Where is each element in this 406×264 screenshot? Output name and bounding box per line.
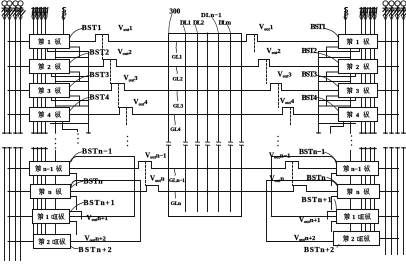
wire left clock bus 4 (lower) — [44, 148, 48, 235]
svg-text:BSTn+2: BSTn+2 — [79, 245, 112, 254]
svg-text:Voutn+1: Voutn+1 — [87, 214, 108, 222]
wire Voutn+2 feedback (right) — [267, 181, 380, 242]
BSTn leader (right) — [327, 177, 338, 185]
svg-text:Vout3: Vout3 — [124, 74, 138, 82]
stub right bus to box 4 — [378, 114, 399, 116]
wire branch y81.5 (left) — [56, 81, 89, 83]
dashed timing line (left bottom) — [145, 162, 147, 186]
data line DL3 — [207, 34, 209, 212]
arrowhead (right bus 4) — [402, 17, 405, 20]
arrowhead (right inner 4) — [373, 17, 376, 20]
stage 4 (left) — [30, 108, 70, 122]
svg-text:BST4: BST4 — [90, 92, 110, 101]
terminal label (left 4) — [18, 7, 25, 16]
arrowhead (right inner 1) — [360, 17, 363, 20]
wire elbow box3 out (left) — [70, 96, 80, 106]
svg-text:3: 3 — [356, 88, 359, 95]
terminal label (left 3) — [13, 7, 20, 16]
wire right bus 1 (upper) — [384, 6, 388, 134]
wire right bus 4 (lower) — [402, 147, 406, 254]
dashed timing line (right 4) — [290, 108, 292, 127]
stage n (left) — [31, 185, 71, 199]
wire right clock bus 3 (upper) — [369, 8, 373, 134]
svg-text:Voutn: Voutn — [150, 175, 165, 183]
arrowhead (left inner 1) — [32, 17, 35, 20]
svg-text:BSTn−1: BSTn−1 — [299, 147, 325, 156]
continuation dots (right waveform) — [277, 136, 279, 147]
wire box1 bottom tap (right) — [319, 49, 360, 52]
svg-text:BSTn: BSTn — [307, 173, 327, 182]
wire branch y57.5 (right) — [319, 57, 351, 59]
data line DL5 — [230, 34, 232, 212]
wire left bus 4 (lower) — [19, 147, 23, 260]
continuation dots (left waveform) — [127, 136, 129, 147]
svg-text:2: 2 — [47, 239, 50, 246]
junction dot — [207, 90, 209, 92]
arrowhead SP (left) — [62, 17, 65, 20]
svg-text:GLn: GLn — [171, 201, 181, 207]
wire gate line GLn-1 with Vout pulses — [70, 162, 337, 169]
svg-text:2: 2 — [47, 64, 50, 71]
junction dot — [207, 41, 209, 43]
wire elbow box2 out (right) — [327, 72, 339, 82]
dashed timing line (left 1) — [102, 35, 104, 60]
svg-text:Voutn+2: Voutn+2 — [85, 234, 106, 242]
terminal T1 (left) — [2, 1, 7, 6]
wire branch y106 (left) — [56, 105, 89, 107]
arrowhead (left bus 2) — [8, 17, 11, 20]
wire branch y123.5 (right) — [319, 123, 356, 125]
BST2 leader (left) — [70, 53, 90, 63]
BST1 leader (right) — [325, 29, 339, 38]
svg-text:1: 1 — [47, 39, 50, 46]
wire box2 bottom tap (right) — [319, 74, 356, 77]
BSTn-1 leader (left) — [72, 152, 83, 162]
wire left bus 2 (lower) — [8, 147, 12, 260]
junction dot — [207, 114, 209, 116]
wire gate line GL4 with Vout pulses — [70, 108, 339, 115]
arrowhead (left bus 4) — [19, 17, 22, 20]
stage 2 (left) — [30, 60, 70, 74]
wire carry box1-box2 (left) — [55, 49, 57, 60]
svg-text:n−1: n−1 — [43, 167, 53, 173]
signal label (right inner 1) — [360, 8, 364, 17]
wire box1 bottom tap (left) — [48, 49, 89, 52]
SP label (left) — [62, 8, 66, 18]
svg-text:BST2: BST2 — [90, 48, 110, 57]
terminal T2 (right) — [389, 1, 394, 6]
wire SP to stage1 (right) — [345, 8, 347, 35]
stub right bus to box 7 — [379, 216, 399, 218]
arrowhead (right bus 1) — [384, 17, 387, 20]
wire elbow box2 out (left) — [70, 72, 80, 82]
dummy stage 1 (left) — [33, 210, 70, 224]
leader DLn-1 — [212, 18, 219, 34]
signal label (right inner 4) — [373, 8, 377, 17]
arrowhead (left inner 4) — [44, 17, 47, 20]
leader DL2 — [195, 25, 197, 33]
break mark — [166, 142, 170, 146]
wire gate line GL2 with Vout pulses — [70, 60, 339, 67]
wire dummy1 inner bracket (right) — [328, 212, 337, 220]
wire BST vertical (right) — [317, 52, 321, 134]
BSTn+2 leader (right) — [337, 244, 339, 247]
signal label (left inner 2) — [36, 8, 40, 17]
wire elbow n out (right) — [332, 197, 338, 210]
wire left bus 3 (upper) — [14, 6, 18, 134]
terminal T4 (right) — [401, 1, 406, 6]
wire elbow dummy1 out (right) — [332, 222, 337, 232]
stage n-1 (right) — [337, 162, 379, 176]
dashed timing line (left 2) — [110, 60, 112, 84]
wire carry box4 down (right) — [350, 122, 352, 134]
leader 300 — [169, 14, 172, 33]
wire carry box3-box4 (left) — [55, 98, 57, 108]
signal label (left inner 3) — [40, 8, 44, 17]
wire right clock bus 1 (lower) — [360, 148, 364, 232]
wire box2 bottom tap (left) — [52, 74, 89, 77]
svg-text:BSTn+1: BSTn+1 — [302, 195, 332, 204]
terminal T1 (right) — [383, 1, 388, 6]
BST3 leader (right) — [317, 75, 339, 87]
wire branch y123.5 (left) — [51, 123, 89, 125]
stage 3 (right) — [339, 84, 378, 98]
wire right clock bus 4 (upper) — [373, 8, 377, 134]
wire right bus 1 (lower) — [384, 147, 388, 254]
stub left bus to box 2 — [8, 66, 30, 68]
svg-text:BST3: BST3 — [90, 70, 110, 79]
svg-text:n−1: n−1 — [351, 167, 361, 173]
wire carry into stage n-1 (left) — [55, 151, 57, 162]
arrowhead (right bus 3) — [396, 17, 399, 20]
wire carry n-1 to n (left) — [55, 176, 57, 185]
wire left bus 1 (lower) — [3, 147, 7, 260]
wire box4 to dots (left) — [63, 122, 78, 132]
leader GL2 — [175, 67, 178, 74]
wire left bus 4 (upper) — [19, 6, 23, 134]
svg-text:BST4: BST4 — [302, 93, 318, 102]
wire SP to stage1 (left) — [63, 8, 65, 35]
dashed timing line (left 3) — [118, 84, 120, 108]
stub left bus to box 8 — [8, 241, 34, 243]
svg-text:BST3: BST3 — [302, 69, 318, 78]
terminal T2 (left) — [7, 1, 12, 6]
break mark — [239, 142, 243, 146]
wire right bus 3 (lower) — [396, 147, 400, 254]
break mark — [228, 142, 232, 146]
arrowhead (right inner 3) — [369, 17, 372, 20]
wire branch y106 (right) — [319, 105, 351, 107]
terminal label (left 1) — [2, 7, 9, 16]
wire right clock bus 2 (lower) — [364, 148, 368, 232]
svg-text:GLn−1: GLn−1 — [169, 178, 185, 184]
wire carry box1-box2 (right) — [350, 49, 352, 60]
svg-text:GL4: GL4 — [170, 127, 180, 133]
svg-text:Voutn+2: Voutn+2 — [294, 234, 315, 242]
dummy stage 2 (right) — [334, 232, 380, 246]
terminal label (right 3) — [395, 7, 402, 16]
svg-text:Vout4: Vout4 — [280, 97, 295, 105]
data line DL4 — [218, 34, 220, 212]
BSTn+1 leader (right) — [335, 200, 337, 210]
stub left bus to box 5 — [8, 168, 30, 170]
svg-text:Vout2: Vout2 — [118, 48, 132, 56]
wire gate line GL3 with Vout pulses — [70, 84, 339, 91]
BSTn-1 leader (right) — [323, 152, 336, 162]
BST2 leader (right) — [317, 53, 339, 63]
arrowhead (left inner 3) — [40, 17, 43, 20]
leader GL4 — [173, 115, 176, 125]
dashed timing line (right 1) — [254, 35, 256, 54]
terminal T4 (left) — [18, 1, 23, 6]
wire carry n to dummy1 (left) — [55, 199, 57, 210]
SP label (right) — [344, 8, 348, 18]
wire BST vertical (left) — [87, 52, 91, 134]
svg-text:1: 1 — [46, 214, 49, 221]
svg-text:Voutn−1: Voutn−1 — [269, 151, 290, 159]
svg-text:Voutn+1: Voutn+1 — [299, 216, 320, 224]
continuation dots (left bst) — [77, 133, 79, 144]
svg-text:BSTn+2: BSTn+2 — [304, 245, 334, 254]
wire elbow box1 out (right) — [327, 47, 339, 58]
wire box4 elbow down (right) — [331, 122, 344, 134]
terminal label (right 4) — [401, 7, 406, 16]
svg-text:2: 2 — [356, 64, 359, 71]
stage n (right) — [338, 185, 380, 199]
BSTn+1 leader (left) — [70, 203, 84, 213]
terminal label (right 1) — [383, 7, 390, 16]
stub right bus to box 2 — [378, 66, 399, 68]
wire elbow n-1 out (right) — [332, 174, 337, 186]
arrowhead (left bus 1) — [3, 17, 6, 20]
signal label (right inner 3) — [369, 8, 373, 17]
stage 1 (left) — [30, 35, 70, 49]
wire left clock bus 3 (lower) — [40, 148, 44, 235]
junction dot — [207, 33, 209, 35]
svg-text:BSTn+1: BSTn+1 — [84, 198, 115, 207]
svg-text:Vout2: Vout2 — [267, 47, 281, 55]
wire carry n to dummy1 (right) — [350, 199, 352, 210]
BST1 leader (left) — [70, 29, 82, 38]
wire carry box3-box4 (right) — [350, 98, 352, 108]
junction dot — [207, 66, 209, 68]
svg-text:DL1: DL1 — [180, 19, 191, 26]
wire carry dummy1-dummy2 (right) — [350, 224, 352, 232]
svg-text:Vout1: Vout1 — [259, 23, 273, 31]
wire left clock bus 2 (lower) — [36, 148, 40, 235]
svg-text:300: 300 — [169, 8, 180, 16]
svg-text:2: 2 — [351, 236, 354, 243]
terminal label (right 2) — [389, 7, 396, 16]
stub right bus to box 5 — [379, 168, 399, 170]
wire elbow box1 out (left) — [70, 47, 80, 58]
terminal T3 (left) — [13, 1, 18, 6]
break mark — [183, 142, 187, 146]
dummy stage 1 (right) — [337, 210, 379, 224]
wire carry n-1 to n (right) — [350, 176, 352, 185]
arrowhead (right inner 2) — [364, 17, 367, 20]
junction dot — [207, 168, 209, 170]
svg-text:1: 1 — [356, 39, 359, 46]
wire Voutn+1 feedback (left) — [70, 157, 135, 217]
wire left clock bus 4 (upper) — [44, 8, 48, 134]
terminal T3 (right) — [395, 1, 400, 6]
stage 1 (right) — [339, 35, 378, 49]
stub right bus to box 3 — [378, 90, 399, 92]
wire gate line GL1 with Vout pulses — [70, 35, 339, 42]
continuation dots (left carry) — [55, 138, 57, 149]
break mark — [216, 142, 220, 146]
stub right bus to box 6 — [380, 191, 399, 193]
wire right clock bus 1 (upper) — [360, 8, 364, 134]
wire left clock bus 3 (upper) — [40, 8, 44, 134]
wire carry dummy1-dummy2 (left) — [55, 224, 57, 235]
dashed timing line (right 2) — [266, 60, 268, 84]
wire gate line GLn with Vout pulses — [71, 186, 338, 192]
dashed timing line (right 3) — [278, 84, 280, 108]
wire left clock bus 1 (lower) — [32, 148, 36, 235]
wire box3 bottom tap (left) — [52, 98, 89, 101]
wire Voutn+2 feedback (left) — [71, 181, 141, 242]
data line DL1 — [185, 34, 187, 212]
wire left bus 3 (lower) — [14, 147, 18, 260]
wire branch y57.5 (left) — [56, 57, 89, 59]
svg-text:GL1: GL1 — [172, 54, 182, 60]
svg-text:Vout4: Vout4 — [133, 98, 148, 106]
signal label (left inner 4) — [44, 8, 48, 17]
wire left bus 2 (upper) — [8, 6, 12, 134]
svg-text:1: 1 — [352, 214, 355, 221]
svg-text:DLm: DLm — [219, 19, 232, 26]
leader DL1 — [183, 25, 185, 33]
wire right clock bus 3 (lower) — [369, 148, 373, 232]
leader GLn — [174, 192, 177, 198]
svg-text:BSTn: BSTn — [84, 176, 104, 185]
wire Voutn+1 feedback (right) — [272, 157, 379, 217]
terminal label (left 2) — [7, 7, 14, 16]
wire left clock bus 1 (upper) — [32, 8, 36, 134]
wire branch y81.5 (right) — [319, 81, 351, 83]
stage 2 (right) — [339, 60, 378, 74]
stub left bus to box 1 — [8, 41, 30, 43]
svg-text:BST2: BST2 — [302, 46, 318, 55]
arrowhead SP (right) — [344, 17, 347, 20]
svg-text:Vout3: Vout3 — [278, 71, 292, 79]
BST4 leader (right) — [317, 97, 339, 111]
wire elbow box3 out (right) — [327, 96, 339, 106]
stub right bus to box 8 — [380, 238, 399, 240]
leader DLm — [228, 25, 231, 33]
leader GLn&#8722;1 — [173, 169, 176, 175]
wire carry box2-box3 (right) — [350, 74, 352, 84]
leader GL3 — [176, 91, 179, 101]
wire right bus 2 (lower) — [390, 147, 394, 254]
junction dot — [207, 191, 209, 193]
wire elbow dummy1 out (left) — [70, 222, 77, 235]
svg-text:DLn−1: DLn−1 — [201, 12, 222, 19]
BSTn+2 leader (left) — [71, 246, 79, 249]
stub left bus to box 3 — [8, 90, 30, 92]
svg-text:Voutn: Voutn — [270, 175, 285, 183]
BSTn leader (left) — [71, 181, 84, 188]
continuation dots (right carry) — [351, 135, 353, 146]
break mark — [195, 142, 199, 146]
svg-text:BST1: BST1 — [82, 23, 102, 32]
panel break gap — [164, 142, 246, 146]
svg-text:3: 3 — [47, 88, 50, 95]
wire right clock bus 4 (lower) — [373, 148, 377, 232]
signal label (left inner 1) — [32, 8, 36, 17]
wire left clock bus 2 (upper) — [36, 8, 40, 134]
svg-text:BST1: BST1 — [310, 22, 326, 31]
svg-text:Vout1: Vout1 — [118, 24, 132, 32]
arrowhead (left bus 3) — [14, 17, 17, 20]
display panel 300 — [169, 34, 242, 217]
arrowhead (left inner 2) — [36, 17, 39, 20]
stub left bus to box 7 — [8, 216, 33, 218]
stage 4 (right) — [339, 108, 378, 122]
dashed timing line (right bottom) — [292, 162, 294, 186]
svg-text:DL2: DL2 — [193, 19, 205, 26]
wire right clock bus 2 (upper) — [364, 8, 368, 134]
wire carry box2-box3 (left) — [55, 74, 57, 84]
wire dummy1 inner bracket (left) — [70, 212, 82, 220]
svg-text:GL3: GL3 — [173, 103, 183, 109]
wire carry box4 down (left) — [55, 122, 57, 134]
stub right bus to box 1 — [378, 41, 399, 43]
signal label (right inner 2) — [364, 8, 368, 17]
stub left bus to box 4 — [8, 114, 30, 116]
wire right bus 2 (upper) — [390, 6, 394, 134]
BST4 leader (left) — [70, 97, 90, 111]
wire right bus 3 (upper) — [396, 6, 400, 134]
wire left bus 1 (upper) — [3, 6, 7, 134]
stage n-1 (left) — [30, 162, 70, 176]
wire box3 bottom tap (right) — [319, 98, 356, 101]
dashed timing line (left 4) — [126, 108, 128, 127]
svg-text:GL2: GL2 — [173, 76, 183, 82]
arrowhead (right bus 2) — [390, 17, 393, 20]
break mark — [205, 142, 209, 146]
wire right bus 4 (upper) — [402, 6, 406, 134]
stage 3 (left) — [30, 84, 70, 98]
leader GL1 — [175, 42, 178, 53]
BST3 leader (left) — [70, 75, 90, 87]
svg-text:Voutn−1: Voutn−1 — [145, 151, 166, 159]
data line DL2 — [197, 34, 199, 212]
svg-text:BSTn−1: BSTn−1 — [82, 146, 112, 155]
dummy stage 2 (left) — [34, 235, 71, 249]
wire carry into stage n-1 (right) — [350, 151, 352, 162]
wire elbow n out (left) — [71, 197, 77, 210]
wire elbow n-1 out (left) — [70, 174, 77, 186]
stub left bus to box 6 — [8, 191, 31, 193]
